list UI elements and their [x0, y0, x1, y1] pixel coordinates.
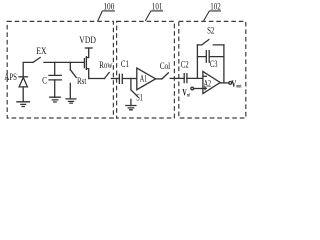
svg-text:C3: C3	[210, 60, 218, 70]
svg-text:C2: C2	[181, 60, 189, 70]
svg-text:EX: EX	[36, 47, 46, 57]
svg-text:S1: S1	[136, 93, 143, 103]
svg-text:Row: Row	[99, 61, 112, 71]
svg-text:out: out	[236, 84, 241, 90]
svg-text:C: C	[42, 77, 47, 87]
svg-text:C1: C1	[121, 60, 129, 70]
svg-text:Col: Col	[160, 62, 171, 72]
svg-text:101: 101	[152, 2, 163, 12]
svg-text:A2: A2	[204, 79, 212, 89]
svg-text:A1: A1	[140, 75, 148, 85]
svg-text:ref: ref	[187, 92, 190, 98]
svg-text:VDD: VDD	[79, 36, 96, 46]
svg-text:APS: APS	[4, 73, 17, 83]
svg-text:102: 102	[210, 2, 221, 12]
svg-text:S2: S2	[207, 27, 215, 37]
svg-text:100: 100	[103, 2, 114, 12]
svg-text:Rst: Rst	[77, 77, 87, 87]
